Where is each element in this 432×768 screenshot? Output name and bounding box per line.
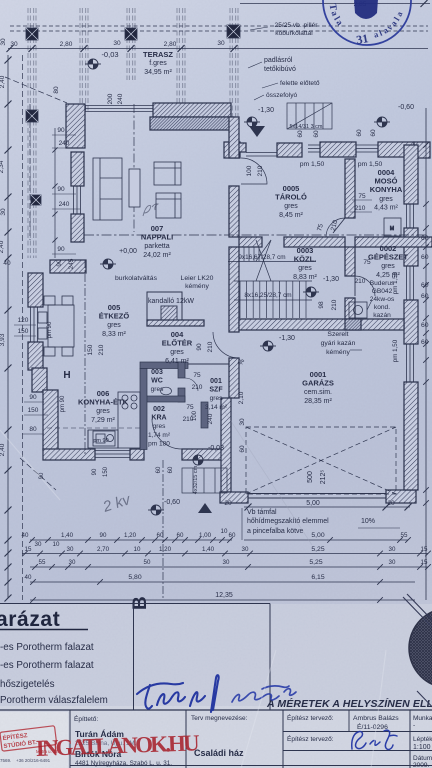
svg-text:KÖZL.: KÖZL. bbox=[294, 255, 317, 264]
svg-text:gres: gres bbox=[381, 263, 395, 270]
svg-text:500: 500 bbox=[307, 471, 314, 483]
svg-text:1,40: 1,40 bbox=[202, 546, 215, 553]
svg-text:30: 30 bbox=[0, 208, 7, 216]
svg-text:60: 60 bbox=[421, 254, 429, 261]
wall tároló/közl right part bbox=[284, 237, 345, 247]
svg-text:15: 15 bbox=[25, 546, 32, 553]
svg-text:2,40: 2,40 bbox=[0, 240, 5, 253]
svg-text:gres: gres bbox=[96, 408, 110, 415]
svg-text:7569.: 7569. bbox=[0, 758, 11, 763]
SW corner step wall bbox=[32, 368, 47, 392]
svg-text:60: 60 bbox=[168, 466, 174, 473]
svg-text:150: 150 bbox=[28, 407, 39, 414]
dining table + chairs bbox=[38, 296, 74, 356]
svg-text:10: 10 bbox=[221, 528, 228, 535]
paper grain noise bbox=[0, 0, 1, 1]
nappali axis dash-dot bbox=[133, 104, 135, 232]
basement stairs bbox=[234, 240, 312, 318]
svg-text:kazán: kazán bbox=[373, 312, 391, 319]
bottom dim chain row4 bbox=[30, 581, 415, 583]
svg-text:20: 20 bbox=[387, 500, 395, 507]
side table bbox=[129, 169, 140, 207]
bottom dim chain row5 bbox=[30, 599, 415, 601]
svg-text:-1,30: -1,30 bbox=[279, 335, 295, 342]
middle wall mid bbox=[229, 186, 239, 237]
company stamp red bbox=[0, 726, 57, 752]
svg-text:150: 150 bbox=[103, 466, 109, 477]
partition WC/SZF vertical lower bbox=[178, 388, 185, 402]
svg-text:30: 30 bbox=[223, 559, 230, 566]
svg-text:60: 60 bbox=[356, 129, 363, 137]
svg-text:34,95 m²: 34,95 m² bbox=[144, 69, 172, 76]
svg-text:30: 30 bbox=[0, 38, 7, 46]
svg-text:240: 240 bbox=[59, 201, 70, 208]
svg-text:5,00: 5,00 bbox=[306, 500, 320, 507]
garage S threshold lines bbox=[248, 493, 386, 495]
svg-text:pm 180: pm 180 bbox=[148, 440, 170, 447]
svg-text:Családi ház: Családi ház bbox=[194, 748, 244, 758]
svg-text:210: 210 bbox=[192, 384, 203, 391]
garage inner dim 5,00 bbox=[244, 506, 410, 508]
WC door arc bbox=[185, 378, 198, 391]
svg-text:-0,60: -0,60 bbox=[398, 104, 414, 111]
svg-text:4481 Nyíregyháza, Szabó L. u.: 4481 Nyíregyháza, Szabó L. u. 31. bbox=[75, 760, 172, 767]
svg-text:90: 90 bbox=[92, 468, 98, 475]
svg-text:60: 60 bbox=[421, 339, 429, 346]
svg-text:pm 1,50: pm 1,50 bbox=[392, 339, 399, 362]
svg-text:4x32/15 cm: 4x32/15 cm bbox=[193, 465, 199, 494]
svg-text:GÉPÉSZET: GÉPÉSZET bbox=[368, 253, 408, 262]
svg-text:gres: gres bbox=[210, 395, 223, 402]
svg-text:200: 200 bbox=[107, 93, 114, 104]
door arc tároló bbox=[241, 158, 267, 184]
svg-text:5,25: 5,25 bbox=[309, 559, 322, 566]
W wall nappali lower bbox=[71, 214, 84, 242]
svg-text:ÉTKEZŐ: ÉTKEZŐ bbox=[99, 312, 130, 321]
washing machine bbox=[384, 218, 401, 236]
W window étkező bbox=[30, 307, 32, 342]
stamp emblem shield bbox=[354, 0, 378, 19]
N wall segment 3 bbox=[378, 142, 414, 157]
svg-text:hőhídmegszakító elemmel: hőhídmegszakító elemmel bbox=[247, 518, 329, 525]
svg-text:4,43 m²: 4,43 m² bbox=[374, 204, 398, 211]
N wall segment 2 bbox=[320, 142, 356, 157]
right vertical dim line bbox=[425, 108, 427, 600]
svg-text:Lépték:: Lépték: bbox=[413, 736, 432, 743]
terrace dashed boundary bbox=[29, 104, 31, 240]
svg-text:75: 75 bbox=[186, 404, 194, 411]
svg-text:összefolyó: összefolyó bbox=[266, 92, 297, 99]
svg-text:50: 50 bbox=[144, 559, 151, 566]
svg-text:5,00: 5,00 bbox=[311, 532, 324, 539]
ramp triangles bbox=[249, 126, 265, 137]
svg-text:burkolatváltás: burkolatváltás bbox=[115, 275, 158, 282]
garage SW corner bbox=[220, 492, 248, 503]
svg-text:Leier LK20: Leier LK20 bbox=[181, 275, 214, 282]
entrance steps bbox=[182, 468, 227, 493]
E wall seg1 bbox=[404, 145, 418, 204]
svg-text:15: 15 bbox=[421, 546, 428, 553]
svg-text:-0,60: -0,60 bbox=[164, 499, 180, 506]
svg-text:60: 60 bbox=[297, 130, 304, 138]
svg-text:15: 15 bbox=[421, 559, 428, 566]
svg-text:gyári kazán: gyári kazán bbox=[321, 340, 356, 347]
W wall étkező lower bbox=[28, 342, 43, 370]
svg-text:kandalló 12kW: kandalló 12kW bbox=[148, 298, 194, 305]
sofa bbox=[93, 158, 122, 220]
svg-text:240: 240 bbox=[117, 93, 124, 104]
legend box lines bbox=[0, 603, 270, 605]
svg-text:1:100: 1:100 bbox=[413, 744, 431, 751]
E wall seg3 bbox=[404, 300, 418, 344]
middle wall top (tároló side) bbox=[229, 117, 239, 158]
svg-text:kémény: kémény bbox=[326, 349, 350, 356]
chimney block garage corner bbox=[345, 319, 361, 330]
S kitchen window bbox=[95, 450, 130, 452]
E wall seg2 bbox=[404, 228, 418, 266]
svg-text:212⁵: 212⁵ bbox=[320, 470, 327, 485]
svg-text:60: 60 bbox=[370, 129, 377, 137]
svg-text:55: 55 bbox=[39, 559, 46, 566]
W wall kitchen bbox=[43, 390, 58, 450]
svg-text:40: 40 bbox=[3, 260, 11, 267]
svg-text:KRA: KRA bbox=[151, 415, 166, 422]
svg-text:210: 210 bbox=[98, 344, 105, 355]
svg-text:245: 245 bbox=[68, 258, 75, 269]
inner vertical dim line W windows bbox=[54, 128, 56, 258]
svg-text:10: 10 bbox=[134, 546, 141, 553]
svg-text:210: 210 bbox=[207, 341, 214, 352]
svg-text:pm 90: pm 90 bbox=[93, 438, 108, 444]
svg-text:-: - bbox=[413, 722, 415, 729]
svg-text:Ambrus Balázs: Ambrus Balázs bbox=[353, 715, 399, 722]
partition WC top bbox=[140, 362, 188, 369]
svg-text:9x16,67/28,7 cm: 9x16,67/28,7 cm bbox=[238, 254, 285, 261]
lighter legend paper bbox=[0, 604, 432, 768]
pencil mark pf bbox=[143, 204, 158, 216]
svg-text:30: 30 bbox=[242, 546, 249, 553]
top-right small dim bbox=[240, 3, 430, 5]
S wall entrance seg bbox=[182, 449, 230, 460]
fireplace (kandalló) bbox=[147, 292, 182, 320]
svg-text:150: 150 bbox=[87, 344, 94, 355]
armchair 1 bbox=[154, 162, 181, 185]
svg-text:60: 60 bbox=[177, 532, 184, 539]
N terrace wall (hatched) bbox=[153, 103, 231, 117]
svg-text:75: 75 bbox=[358, 193, 366, 200]
middle wall lower (garage W) bbox=[221, 398, 231, 492]
wall tároló/közl left part bbox=[239, 237, 262, 247]
horizontal axis dash-dot y235 bbox=[84, 234, 428, 236]
svg-text:Porotherm válaszfalelem: Porotherm válaszfalelem bbox=[0, 695, 108, 706]
svg-text:60: 60 bbox=[421, 293, 429, 300]
svg-text:210: 210 bbox=[331, 299, 338, 310]
NW corner wall block bbox=[66, 104, 85, 148]
svg-text:60: 60 bbox=[313, 130, 320, 138]
dark round stamp bottom right bbox=[409, 608, 432, 688]
svg-text:90: 90 bbox=[56, 259, 63, 267]
svg-text:a pincefalba kötve: a pincefalba kötve bbox=[247, 528, 304, 535]
svg-text:210: 210 bbox=[257, 165, 264, 176]
svg-text:KONYHA-ÉTK: KONYHA-ÉTK bbox=[78, 398, 129, 407]
partition WC/SZF vertical upper bbox=[178, 362, 185, 378]
svg-text:-es Porotherm falazat: -es Porotherm falazat bbox=[0, 660, 94, 671]
svg-text:Terv megnevezése:: Terv megnevezése: bbox=[191, 715, 248, 722]
svg-text:100: 100 bbox=[192, 410, 198, 421]
svg-text:2,10: 2,10 bbox=[238, 391, 245, 404]
door arc gépészet bbox=[355, 276, 375, 296]
NE corner wall bbox=[414, 142, 430, 158]
armchair 2 bbox=[156, 193, 181, 218]
WC toilet bbox=[161, 387, 172, 395]
svg-text:pm 90: pm 90 bbox=[47, 321, 53, 338]
door threshold lines bbox=[246, 152, 277, 154]
svg-text:1,20: 1,20 bbox=[124, 532, 137, 539]
svg-text:30: 30 bbox=[389, 546, 396, 553]
svg-text:gres: gres bbox=[298, 265, 312, 272]
svg-text:90: 90 bbox=[196, 343, 203, 351]
svg-text:24kw-os: 24kw-os bbox=[370, 296, 395, 303]
svg-text:25/25 vb. pillér: 25/25 vb. pillér bbox=[275, 22, 319, 29]
svg-text:É/11-0296: É/11-0296 bbox=[357, 722, 388, 731]
window band N nappali bbox=[85, 105, 153, 107]
signature main bbox=[137, 675, 219, 712]
svg-text:1,74 m²: 1,74 m² bbox=[148, 432, 171, 439]
faint creases bbox=[0, 412, 386, 768]
step corner wall bbox=[224, 142, 240, 158]
svg-text:30: 30 bbox=[69, 559, 76, 566]
svg-text:-0,03: -0,03 bbox=[208, 445, 224, 452]
middle wall piece below door bbox=[229, 358, 239, 398]
svg-text:gres: gres bbox=[153, 423, 166, 430]
svg-text:240: 240 bbox=[207, 413, 214, 424]
partition kitchen/hall vertical bbox=[140, 369, 147, 450]
svg-text:pm 1,50: pm 1,50 bbox=[300, 161, 325, 168]
svg-text:3,93: 3,93 bbox=[0, 333, 6, 346]
svg-text:90: 90 bbox=[57, 246, 65, 253]
svg-text:2,40: 2,40 bbox=[0, 443, 6, 456]
svg-text:75: 75 bbox=[363, 259, 371, 266]
svg-text:120: 120 bbox=[18, 317, 29, 324]
pillar squares bbox=[26, 28, 38, 40]
svg-text:Építtető:: Építtető: bbox=[74, 714, 98, 723]
svg-text:hőszigetelés: hőszigetelés bbox=[0, 679, 55, 690]
partition KRA/SZF vertical bbox=[201, 402, 208, 428]
svg-text:60: 60 bbox=[239, 445, 246, 453]
svg-text:30: 30 bbox=[389, 559, 396, 566]
bottom dim chain row1 bbox=[30, 539, 232, 541]
top dimension line bbox=[8, 48, 428, 50]
svg-text:tetőkibúvó: tetőkibúvó bbox=[264, 66, 296, 73]
door arc mosó bbox=[326, 218, 345, 237]
svg-text:gres: gres bbox=[379, 196, 393, 203]
svg-text:28,35 m²: 28,35 m² bbox=[304, 398, 332, 405]
svg-text:30: 30 bbox=[67, 546, 74, 553]
svg-text:002: 002 bbox=[153, 406, 165, 413]
svg-text:8,33 m²: 8,33 m² bbox=[102, 331, 126, 338]
wall piece below fireplace bbox=[147, 320, 204, 326]
svg-text:001: 001 bbox=[210, 378, 222, 385]
svg-text:pm 1,50: pm 1,50 bbox=[358, 161, 383, 168]
svg-text:210: 210 bbox=[355, 205, 366, 212]
svg-text:GARÁZS: GARÁZS bbox=[302, 379, 334, 388]
svg-text:Dátum: Dátum bbox=[413, 755, 432, 762]
terrace wall facing band bbox=[150, 117, 234, 130]
svg-text:TÁROLÓ: TÁROLÓ bbox=[275, 193, 307, 202]
svg-text:kőburkolattal: kőburkolattal bbox=[275, 30, 313, 37]
partition szf top line bbox=[188, 363, 229, 365]
svg-text:5,80: 5,80 bbox=[128, 574, 141, 581]
svg-text:gres: gres bbox=[284, 203, 298, 210]
W wall nappali upper bbox=[71, 152, 84, 186]
svg-text:10%: 10% bbox=[361, 518, 375, 525]
svg-text:8,83 m²: 8,83 m² bbox=[293, 274, 317, 281]
svg-text:2,40: 2,40 bbox=[0, 75, 6, 88]
kitchen dash line y428 bbox=[47, 427, 142, 429]
svg-text:2,34: 2,34 bbox=[0, 160, 5, 173]
svg-text:55: 55 bbox=[401, 532, 408, 539]
svg-text:30: 30 bbox=[35, 541, 42, 548]
svg-text:2,70: 2,70 bbox=[97, 546, 110, 553]
svg-text:A MÉRETEK A HELYSZÍNEN ELL: A MÉRETEK A HELYSZÍNEN ELL bbox=[266, 697, 432, 710]
svg-text:H: H bbox=[63, 370, 70, 381]
S wall kitchen seg2 bbox=[130, 449, 144, 460]
svg-text:NAPPALI: NAPPALI bbox=[141, 233, 173, 242]
svg-text:GB042: GB042 bbox=[372, 288, 393, 295]
bottom dim chain row2 bbox=[22, 553, 428, 555]
svg-text:24,02 m²: 24,02 m² bbox=[143, 252, 171, 259]
svg-text:7,29 m²: 7,29 m² bbox=[91, 417, 115, 424]
kitchen counter + stove bbox=[88, 392, 140, 448]
W window nappali bbox=[73, 186, 75, 214]
svg-text:Szerelt: Szerelt bbox=[327, 331, 348, 338]
svg-text:f.gres: f.gres bbox=[149, 60, 167, 67]
svg-text:SZF: SZF bbox=[209, 387, 223, 394]
svg-text:Építész tervező:: Építész tervező: bbox=[287, 734, 334, 743]
svg-text:parketta: parketta bbox=[144, 243, 169, 250]
level symbols bbox=[244, 117, 260, 127]
S wall kitchen seg1 bbox=[43, 449, 95, 460]
svg-text:2,80: 2,80 bbox=[60, 41, 73, 48]
svg-text:210: 210 bbox=[355, 278, 366, 285]
pillar strips (dashed verticals) bbox=[27, 8, 29, 258]
svg-text:150: 150 bbox=[18, 328, 29, 335]
svg-text:8,45 m²: 8,45 m² bbox=[279, 212, 303, 219]
N windows right bbox=[308, 144, 320, 146]
E windows bbox=[406, 204, 408, 228]
svg-text:1,40: 1,40 bbox=[61, 532, 74, 539]
svg-text:60: 60 bbox=[157, 532, 164, 539]
back door steps bbox=[287, 103, 332, 129]
roof hip dashed diagonal bbox=[5, 77, 67, 103]
svg-text:TERASZ: TERASZ bbox=[143, 50, 173, 59]
svg-text:kémény: kémény bbox=[185, 283, 209, 290]
garage dashed X bbox=[246, 427, 396, 494]
svg-text:pm 90: pm 90 bbox=[60, 395, 66, 412]
svg-text:20: 20 bbox=[224, 500, 232, 507]
svg-text:2,80: 2,80 bbox=[164, 41, 177, 48]
svg-text:100: 100 bbox=[246, 165, 253, 176]
svg-text:30: 30 bbox=[113, 40, 121, 47]
svg-text:5,25: 5,25 bbox=[311, 546, 324, 553]
svg-text:60: 60 bbox=[421, 282, 429, 289]
svg-text:gres: gres bbox=[151, 386, 164, 393]
svg-text:30: 30 bbox=[239, 418, 246, 426]
svg-text:40: 40 bbox=[22, 532, 29, 539]
svg-text:75: 75 bbox=[193, 372, 201, 379]
svg-text:2009.: 2009. bbox=[413, 762, 429, 768]
svg-text:1,00: 1,00 bbox=[199, 532, 212, 539]
svg-text:3,14 m²: 3,14 m² bbox=[205, 404, 228, 411]
pen diagonal top bbox=[403, 594, 432, 716]
wall gépészet W lower bbox=[345, 298, 355, 320]
signature second bbox=[232, 686, 296, 702]
svg-text:kond.: kond. bbox=[374, 304, 390, 311]
signature in table bbox=[352, 730, 397, 749]
blue round stamp bbox=[323, 0, 411, 47]
svg-text:12,35: 12,35 bbox=[215, 592, 233, 599]
svg-text:WC: WC bbox=[151, 378, 163, 385]
svg-text:60: 60 bbox=[229, 532, 236, 539]
white company corner bbox=[0, 712, 68, 768]
entrance door arc bbox=[152, 419, 182, 449]
boiler bbox=[349, 302, 367, 318]
door arc előtér/közl bbox=[213, 332, 239, 358]
N wall segment 1 bbox=[277, 143, 302, 157]
svg-text:M: M bbox=[390, 226, 394, 232]
svg-text:6,15: 6,15 bbox=[311, 574, 324, 581]
W wall étkező upper bbox=[28, 273, 43, 307]
title block frame bbox=[0, 709, 432, 711]
svg-text:60: 60 bbox=[421, 235, 429, 242]
svg-text:KONYHA: KONYHA bbox=[370, 185, 403, 194]
svg-text:90: 90 bbox=[57, 127, 65, 134]
garage N wall bbox=[239, 319, 404, 330]
svg-text:ELŐTÉR: ELŐTÉR bbox=[162, 339, 193, 348]
wall gépészet W upper bbox=[345, 247, 355, 276]
svg-text:90: 90 bbox=[57, 186, 65, 193]
svg-text:003: 003 bbox=[151, 369, 163, 376]
svg-text:Építész tervező:: Építész tervező: bbox=[287, 713, 334, 722]
svg-text:-1,30: -1,30 bbox=[323, 276, 339, 283]
middle wall long bbox=[229, 247, 239, 332]
W jut wall (étkező top) bbox=[50, 260, 86, 273]
E wall seg4 bbox=[404, 382, 418, 490]
svg-text:30: 30 bbox=[217, 40, 225, 47]
svg-text:gres: gres bbox=[170, 349, 184, 356]
lighter title-block paper bbox=[0, 706, 432, 768]
svg-text:60: 60 bbox=[421, 322, 429, 329]
left vertical dim line bbox=[7, 55, 9, 598]
wall mosó W bbox=[345, 159, 355, 218]
svg-text:gres: gres bbox=[107, 322, 121, 329]
svg-text:+0,00: +0,00 bbox=[119, 248, 137, 255]
svg-text:-0,03: -0,03 bbox=[101, 50, 118, 59]
svg-text:1,20: 1,20 bbox=[159, 546, 172, 553]
bottom dim chain row3 bbox=[30, 566, 428, 568]
svg-text:90: 90 bbox=[29, 394, 37, 401]
section dash-dot line bbox=[84, 260, 86, 455]
svg-text:padlásról: padlásról bbox=[264, 57, 293, 64]
svg-text:80: 80 bbox=[53, 86, 60, 94]
small wall block bbox=[238, 143, 246, 152]
svg-text:5x14/31 3 cm: 5x14/31 3 cm bbox=[289, 124, 322, 130]
svg-text:Munka: Munka bbox=[413, 715, 432, 722]
svg-text:98: 98 bbox=[318, 301, 325, 309]
svg-text:60: 60 bbox=[156, 466, 162, 473]
svg-text:10: 10 bbox=[53, 541, 60, 548]
svg-text:80: 80 bbox=[29, 426, 37, 433]
